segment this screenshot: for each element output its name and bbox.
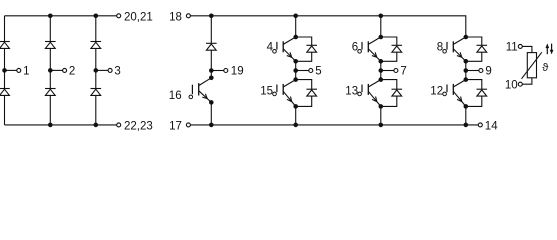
terminal circle 10 xyxy=(518,82,522,86)
phase 1 bottom wire xyxy=(295,106,297,125)
node phase 2 upper collector xyxy=(379,35,384,40)
rectifier upper diode leg 2 xyxy=(45,42,56,49)
junction chopper top bus xyxy=(209,14,214,19)
freewheel diode (IGBT 4) xyxy=(306,45,317,52)
junction top bus phase 1 xyxy=(293,14,298,19)
svg-text:9: 9 xyxy=(485,66,491,78)
freewheel diode (IGBT 6) xyxy=(392,45,403,52)
terminal tap wire 2 xyxy=(50,69,62,71)
junction bottom bus leg 3 xyxy=(94,123,99,128)
freewheel diode loop upper phase 2 lower wire xyxy=(381,52,397,61)
node phase 3 upper collector xyxy=(464,35,469,40)
terminal tap wire 5 xyxy=(296,70,309,72)
terminal circle 18 xyxy=(186,14,190,18)
node phase 2 upper emitter xyxy=(379,59,384,64)
svg-text:1: 1 xyxy=(23,66,29,78)
junction top bus leg 3 xyxy=(94,14,99,19)
node phase 1 upper emitter xyxy=(293,59,298,64)
transistor IGBT 16 xyxy=(189,78,211,103)
terminal circle 1 xyxy=(17,68,21,72)
rectifier lower diode leg 3 xyxy=(91,89,102,96)
svg-text:7: 7 xyxy=(400,66,406,78)
phase 3 bottom wire xyxy=(465,106,467,125)
svg-text:6: 6 xyxy=(352,41,358,53)
freewheel diode loop lower phase 3 xyxy=(466,80,482,90)
terminal circle 11 xyxy=(518,44,522,48)
terminal circle 14 xyxy=(478,123,482,127)
freewheel diode loop lower phase 3 lower wire xyxy=(466,96,482,106)
node phase 2 lower emitter xyxy=(379,104,384,109)
svg-text:13: 13 xyxy=(345,85,358,97)
freewheel diode loop upper phase 2 xyxy=(381,37,397,45)
svg-text:10: 10 xyxy=(505,79,518,91)
svg-text:4: 4 xyxy=(267,41,274,53)
terminal circle 19 xyxy=(224,69,228,73)
phase 2 bottom wire xyxy=(380,106,382,125)
freewheel diode (IGBT 12) xyxy=(477,89,488,96)
transistor IGBT 6 xyxy=(358,37,381,61)
phase 2 mid wire xyxy=(380,61,382,79)
rectifier upper diode leg 3 xyxy=(91,42,102,49)
NTC top wire xyxy=(522,46,532,52)
svg-text:ϑ: ϑ xyxy=(542,62,548,74)
freewheel diode loop lower phase 2 lower wire xyxy=(381,96,397,106)
node AC output 7 xyxy=(379,68,384,73)
terminal tap wire 19 xyxy=(211,70,223,72)
terminal circle 7 xyxy=(394,69,398,73)
terminal circle 3 xyxy=(108,68,112,72)
terminal circle 22,23 xyxy=(117,123,121,127)
junction bottom bus phase 1 xyxy=(293,123,298,128)
rectifier bottom DC- bus wire xyxy=(5,124,117,126)
freewheel diode loop upper phase 1 xyxy=(296,37,312,45)
freewheel diode (IGBT 8) xyxy=(477,45,488,52)
junction top bus phase 2 xyxy=(379,14,384,19)
terminal circle 20,21 xyxy=(117,14,121,18)
node phase 1 upper collector xyxy=(293,35,298,40)
node phase 3 lower collector xyxy=(464,77,469,82)
freewheel diode (IGBT 15) xyxy=(306,89,317,96)
svg-text:15: 15 xyxy=(260,85,273,97)
thermistor R (NTC) body xyxy=(527,53,536,78)
transistor IGBT 15 xyxy=(273,80,296,107)
junction chopper bottom bus xyxy=(209,123,214,128)
freewheel diode loop lower phase 1 xyxy=(296,80,312,90)
node AC terminal 1 xyxy=(2,68,7,73)
node phase 2 lower collector xyxy=(379,77,384,82)
inverter top DC+ bus wire xyxy=(191,16,466,37)
chopper wire segments xyxy=(210,16,212,125)
svg-text:16: 16 xyxy=(169,90,182,102)
terminal tap wire 1 xyxy=(5,69,17,71)
node phase 3 lower emitter xyxy=(464,104,469,109)
rectifier leg 2 wire segments xyxy=(49,16,51,125)
terminal tap wire 3 xyxy=(96,69,108,71)
freewheel diode (IGBT 13) xyxy=(392,89,403,96)
phase 1 mid wire xyxy=(295,61,297,79)
transistor IGBT 12 xyxy=(443,80,466,107)
NTC bottom wire xyxy=(522,78,532,84)
junction bottom bus phase 2 xyxy=(379,123,384,128)
phase 2 top wire xyxy=(380,16,382,37)
freewheel diode loop upper phase 1 lower wire xyxy=(296,52,312,61)
svg-text:14: 14 xyxy=(485,120,498,132)
rectifier lower diode leg 2 xyxy=(45,89,56,96)
down arrow xyxy=(550,44,554,55)
node AC output 5 xyxy=(293,68,298,73)
thermistor diagonal stroke xyxy=(522,52,542,79)
svg-text:3: 3 xyxy=(114,66,120,78)
up arrow xyxy=(545,43,549,54)
node phase 3 upper emitter xyxy=(464,59,469,64)
terminal circle 9 xyxy=(479,69,483,73)
transistor IGBT 4 xyxy=(273,37,296,61)
terminal circle 5 xyxy=(309,69,313,73)
chopper freewheel diode xyxy=(206,43,217,50)
junction bottom bus leg 2 xyxy=(48,123,53,128)
phase 1 top wire xyxy=(295,16,297,37)
phase 3 mid wire xyxy=(465,61,467,79)
transistor IGBT 8 xyxy=(443,37,466,61)
svg-text:8: 8 xyxy=(437,41,443,53)
svg-text:5: 5 xyxy=(315,66,321,78)
svg-text:17: 17 xyxy=(169,120,182,132)
node AC output 9 xyxy=(464,68,469,73)
svg-text:11: 11 xyxy=(506,41,518,53)
inverter bottom DC- bus wire xyxy=(191,124,479,126)
node phase 1 lower emitter xyxy=(293,104,298,109)
rectifier lower diode leg 1 xyxy=(0,89,10,96)
svg-text:18: 18 xyxy=(169,11,182,23)
node terminal 19 xyxy=(209,68,214,73)
freewheel diode loop upper phase 3 xyxy=(466,37,482,45)
transistor IGBT 13 xyxy=(358,80,381,107)
node chopper collector xyxy=(209,76,214,81)
svg-text:2: 2 xyxy=(69,66,75,78)
rectifier top DC+ bus wire xyxy=(5,15,117,17)
rectifier leg 3 wire segments xyxy=(95,16,97,125)
junction top bus leg 2 xyxy=(48,14,53,19)
terminal circle 2 xyxy=(63,68,67,72)
node AC terminal 2 xyxy=(48,68,53,73)
rectifier leg 1 wire segments xyxy=(4,16,6,125)
freewheel diode loop lower phase 2 xyxy=(381,80,397,90)
node phase 1 lower collector xyxy=(293,77,298,82)
node chopper emitter xyxy=(209,100,214,105)
svg-text:19: 19 xyxy=(231,66,244,78)
freewheel diode loop upper phase 3 lower wire xyxy=(466,52,482,61)
terminal tap wire 9 xyxy=(466,70,479,72)
terminal tap wire 7 xyxy=(381,70,394,72)
node AC terminal 3 xyxy=(94,68,99,73)
svg-text:20,21: 20,21 xyxy=(124,11,153,23)
svg-text:22,23: 22,23 xyxy=(124,120,153,132)
freewheel diode loop lower phase 1 lower wire xyxy=(296,96,312,106)
svg-text:12: 12 xyxy=(430,85,443,97)
junction bottom bus phase 3 xyxy=(464,123,469,128)
terminal circle 17 xyxy=(186,123,190,127)
rectifier upper diode leg 1 xyxy=(0,42,10,49)
